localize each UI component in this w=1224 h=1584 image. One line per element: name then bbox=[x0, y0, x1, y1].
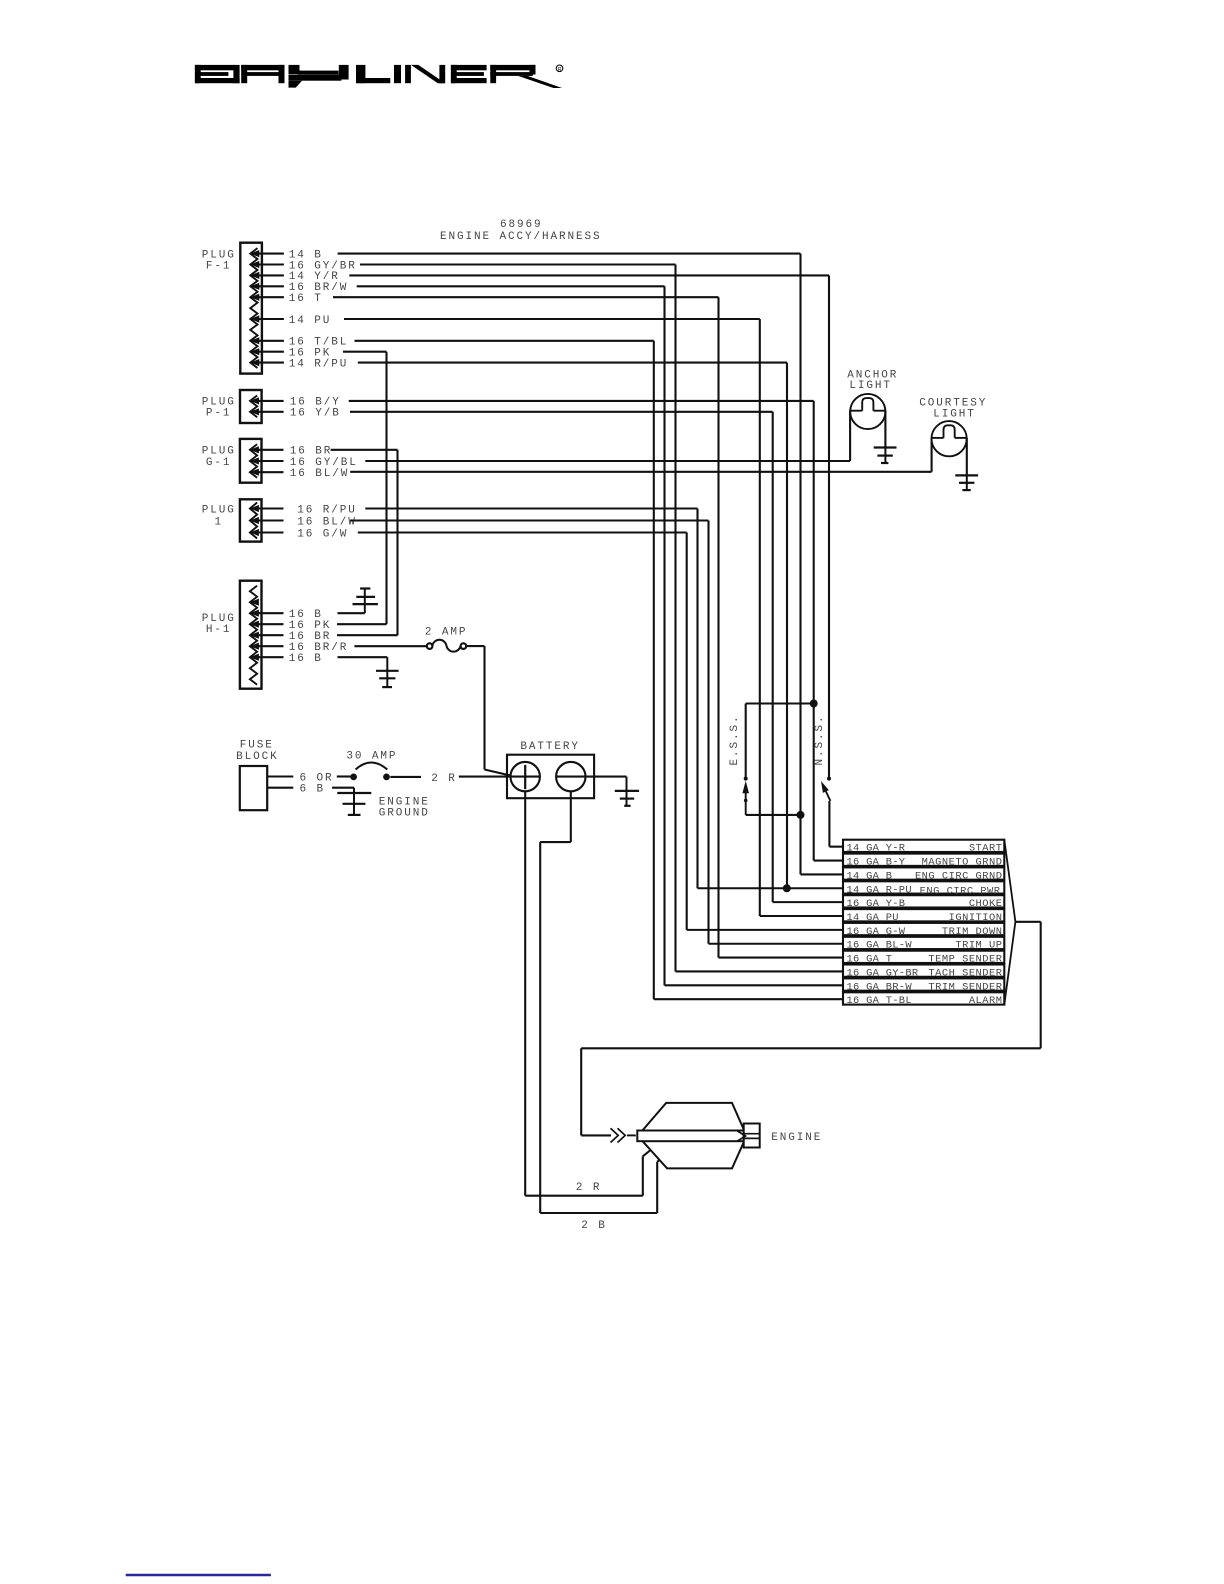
svg-text:68969: 68969 bbox=[500, 219, 543, 231]
fuse 2 AMP bbox=[427, 640, 466, 652]
label ENGINE bbox=[771, 1132, 822, 1144]
wire anchor light to ground bbox=[884, 411, 886, 448]
svg-text:16 Y/B: 16 Y/B bbox=[290, 408, 341, 420]
svg-text:TRIM SENDER: TRIM SENDER bbox=[928, 981, 1002, 993]
label plug 1 bbox=[202, 504, 236, 528]
label wire 16 BR (H-1) bbox=[289, 631, 332, 643]
fuse 30 AMP bbox=[350, 763, 390, 781]
svg-text:TEMP SENDER: TEMP SENDER bbox=[928, 954, 1002, 966]
connector plug 1 bbox=[240, 499, 284, 541]
label plug G-1 bbox=[202, 446, 236, 469]
svg-text:N.S.S.: N.S.S. bbox=[814, 714, 826, 765]
label ANCHOR LIGHT bbox=[847, 370, 898, 392]
svg-text:2 R: 2 R bbox=[576, 1182, 602, 1194]
wire 14 R/PU (F-1 to ENG CIRC PWR) bbox=[289, 358, 787, 888]
svg-text:IGNITION: IGNITION bbox=[949, 912, 1003, 924]
svg-text:16 R/PU: 16 R/PU bbox=[297, 504, 357, 516]
label plug F-1 bbox=[202, 249, 236, 272]
wire 16 B (H-1 to ground, upper) bbox=[289, 609, 365, 621]
footer rule bbox=[126, 1574, 271, 1577]
svg-text:FUSE: FUSE bbox=[240, 740, 274, 752]
connector plug F-1 bbox=[240, 243, 284, 374]
svg-text:16 GA G-W: 16 GA G-W bbox=[847, 926, 906, 938]
ground anchor light bbox=[874, 448, 897, 464]
engine symbol bbox=[637, 1103, 759, 1169]
title 68969 bbox=[500, 219, 543, 231]
svg-text:16 T: 16 T bbox=[289, 293, 323, 305]
switch N.S.S. bbox=[821, 777, 843, 847]
svg-text:16 GA T: 16 GA T bbox=[847, 954, 893, 966]
lamp anchor light bbox=[850, 394, 885, 429]
svg-text:16 GA BR-W: 16 GA BR-W bbox=[847, 981, 913, 993]
label plug P-1 bbox=[202, 397, 236, 420]
wire 16 BR/R (H-1 to 2 AMP fuse) bbox=[289, 642, 427, 654]
svg-text:G-1: G-1 bbox=[206, 457, 232, 469]
svg-text:16 GA GY-BR: 16 GA GY-BR bbox=[847, 967, 919, 979]
svg-text:16 G/W: 16 G/W bbox=[297, 528, 348, 540]
label plug H-1 bbox=[202, 613, 236, 636]
wire 16 B (H-1 to ground, lower) bbox=[289, 653, 388, 665]
svg-text:F-1: F-1 bbox=[206, 260, 232, 272]
junction dot E.S.S. top (on B/Y) bbox=[810, 700, 818, 708]
svg-text:LIGHT: LIGHT bbox=[849, 380, 892, 392]
ground H-1 upper (inverted) bbox=[353, 589, 378, 614]
wire 6 OR stub bbox=[267, 772, 350, 784]
wire 16 T (F-1 to TEMP SENDER) bbox=[289, 293, 843, 958]
svg-text:TACH SENDER: TACH SENDER bbox=[928, 967, 1002, 979]
svg-text:1: 1 bbox=[215, 516, 224, 528]
connector plug H-1 bbox=[240, 581, 284, 689]
connector plug P-1 bbox=[240, 390, 284, 423]
svg-text:E.S.S.: E.S.S. bbox=[729, 714, 741, 765]
svg-text:PLUG: PLUG bbox=[202, 504, 236, 516]
wire 14 B (F-1 to ENG CIRC GRND) bbox=[289, 249, 843, 874]
lamp courtesy light bbox=[932, 421, 967, 456]
svg-text:16 GY/BL: 16 GY/BL bbox=[290, 457, 358, 469]
label wire 16 PK (H-1) bbox=[289, 620, 332, 632]
svg-text:2 R: 2 R bbox=[431, 773, 457, 785]
svg-text:30 AMP: 30 AMP bbox=[346, 751, 397, 763]
svg-text:ENG CIRC PWR: ENG CIRC PWR bbox=[920, 885, 1001, 897]
wire 16 G/W (plug 1 to TRIM DOWN) bbox=[297, 528, 843, 930]
wire 30A fuse to 2 R bbox=[390, 773, 510, 785]
svg-text:LIGHT: LIGHT bbox=[933, 409, 976, 421]
svg-text:ENG CIRC GRND: ENG CIRC GRND bbox=[915, 870, 1003, 882]
svg-text:R: R bbox=[558, 67, 562, 73]
wire 16 BL/W (plug 1 to TRIM UP) bbox=[297, 516, 843, 943]
ground engine (fuse block) bbox=[337, 788, 371, 815]
svg-text:16 GA T-BL: 16 GA T-BL bbox=[847, 995, 912, 1007]
svg-text:CHOKE: CHOKE bbox=[969, 898, 1003, 910]
svg-text:14 GA B: 14 GA B bbox=[847, 870, 893, 882]
wire fuse 2A to battery plus bbox=[466, 646, 511, 776]
wire 14 PU (F-1 to IGNITION) bbox=[289, 315, 843, 916]
connector chevrons to engine bbox=[611, 1128, 636, 1142]
wire 16 R/PU (plug 1 to ENG CIRC PWR) bbox=[297, 504, 843, 888]
svg-text:ENGINE: ENGINE bbox=[771, 1132, 822, 1144]
label N.S.S. bbox=[814, 714, 826, 765]
svg-text:16 GA Y-B: 16 GA Y-B bbox=[847, 898, 906, 910]
svg-text:P-1: P-1 bbox=[206, 408, 232, 420]
svg-text:14 R/PU: 14 R/PU bbox=[289, 358, 349, 370]
label FUSE BLOCK bbox=[236, 740, 279, 763]
svg-text:TRIM UP: TRIM UP bbox=[955, 940, 1002, 952]
svg-text:6 OR: 6 OR bbox=[300, 772, 334, 784]
label COURTESY LIGHT bbox=[919, 398, 987, 421]
svg-text:START: START bbox=[969, 843, 1003, 855]
wire 16 T/BL (F-1 to ALARM) bbox=[289, 337, 843, 1000]
battery box bbox=[507, 755, 594, 799]
switch E.S.S. bbox=[742, 704, 813, 815]
wire 16 GY/BL (G-1 to anchor light) bbox=[290, 411, 850, 469]
label 2 AMP bbox=[425, 627, 468, 639]
svg-text:ENGINE ACCY/HARNESS: ENGINE ACCY/HARNESS bbox=[440, 231, 602, 243]
Bayliner logo bbox=[195, 65, 563, 88]
svg-text:PLUG: PLUG bbox=[202, 446, 236, 458]
battery plus terminal bbox=[511, 762, 540, 791]
svg-text:2 AMP: 2 AMP bbox=[425, 627, 468, 639]
svg-text:GROUND: GROUND bbox=[379, 808, 430, 820]
svg-text:14 GA R-PU: 14 GA R-PU bbox=[847, 884, 912, 896]
svg-text:16 GA BL-W: 16 GA BL-W bbox=[847, 940, 913, 952]
svg-text:BLOCK: BLOCK bbox=[236, 751, 279, 763]
wire 6 B stub bbox=[267, 784, 354, 796]
label BATTERY bbox=[520, 741, 580, 753]
svg-text:BATTERY: BATTERY bbox=[520, 741, 580, 753]
svg-text:TRIM DOWN: TRIM DOWN bbox=[942, 926, 1003, 938]
svg-text:MAGNETO GRND: MAGNETO GRND bbox=[922, 857, 1003, 869]
wire table labels bbox=[847, 843, 1003, 1008]
svg-text:14 GA PU: 14 GA PU bbox=[847, 912, 899, 924]
wire 2 R (battery plus to engine) bbox=[525, 791, 650, 1195]
ground battery bbox=[615, 777, 639, 806]
title ENGINE ACCY/HARNESS bbox=[440, 231, 602, 243]
svg-text:16 BL/W: 16 BL/W bbox=[290, 468, 350, 480]
svg-text:ENGINE: ENGINE bbox=[379, 796, 430, 808]
wire 2 B (battery minus to engine) bbox=[540, 791, 659, 1232]
harness bundle (table to engine) bbox=[581, 840, 1040, 1136]
wire 16 BR (G-1 to H-1) bbox=[290, 446, 398, 636]
wire 16 GY/BR (F-1 to TACH SENDER) bbox=[289, 260, 843, 971]
svg-text:2 B: 2 B bbox=[581, 1220, 607, 1232]
wire 16 Y/B (P-1 to CHOKE) bbox=[290, 408, 843, 903]
junction dot E.S.S. bottom (on 14 B) bbox=[797, 811, 805, 819]
fuse block box bbox=[240, 766, 267, 810]
battery minus terminal bbox=[556, 762, 626, 791]
label 30 AMP bbox=[346, 751, 397, 763]
svg-text:ALARM: ALARM bbox=[969, 995, 1003, 1007]
wire 16 BL/W (G-1 to courtesy light) bbox=[290, 438, 932, 480]
wire courtesy light to ground bbox=[966, 438, 968, 476]
wire 16 B/Y (P-1 to MAGNETO GRND) bbox=[290, 397, 843, 861]
ground H-1 lower bbox=[376, 657, 399, 687]
svg-text:H-1: H-1 bbox=[206, 624, 232, 636]
wire table boxes bbox=[843, 840, 1004, 1005]
connector plug G-1 bbox=[240, 439, 284, 483]
svg-text:14 PU: 14 PU bbox=[289, 315, 332, 327]
svg-text:16 B: 16 B bbox=[289, 653, 323, 665]
ground courtesy light bbox=[955, 475, 978, 490]
svg-text:14 GA Y-R: 14 GA Y-R bbox=[847, 843, 906, 855]
svg-text:16 BL/W: 16 BL/W bbox=[297, 516, 357, 528]
label E.S.S. bbox=[729, 714, 741, 765]
wire 14 Y/R (F-1 to N.S.S.) bbox=[289, 271, 829, 778]
junction dot R/PU bbox=[783, 884, 791, 892]
wire 16 BR/W (F-1 to TRIM SENDER) bbox=[289, 282, 843, 985]
svg-text:6 B: 6 B bbox=[300, 784, 326, 796]
label ENGINE GROUND bbox=[379, 796, 430, 819]
svg-text:16 GA B-Y: 16 GA B-Y bbox=[847, 857, 906, 869]
svg-text:16 BR: 16 BR bbox=[290, 446, 333, 458]
wire 16 PK (F-1 to H-1) bbox=[289, 348, 387, 625]
